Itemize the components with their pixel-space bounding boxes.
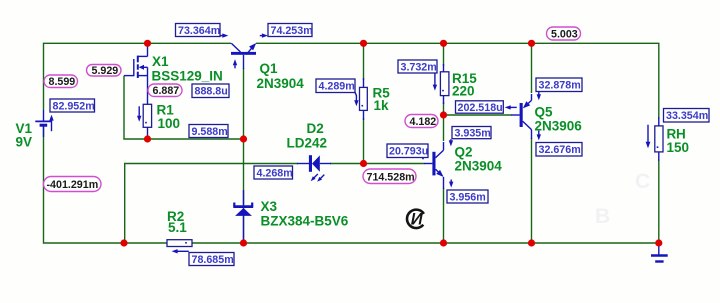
wire: node 4.182 down to Q2 collector [443, 115, 445, 141]
node junction dot (LED rail / bottom rail) [120, 239, 127, 246]
node junction dot (node 5.929 / Q1 base / zener) [240, 135, 247, 142]
svg-text:33.354m: 33.354m [666, 110, 708, 122]
svg-text:3.956m: 3.956m [450, 191, 486, 203]
current arrow for 32.878m (Q5 emitter) [537, 92, 541, 100]
svg-text:4.268m: 4.268m [257, 167, 293, 179]
svg-text:888.8u: 888.8u [195, 86, 228, 98]
svg-text:5.003: 5.003 [551, 28, 578, 40]
current label 82.952m [50, 99, 95, 112]
current label 73.364m [176, 24, 221, 37]
transistor Q1 [231, 41, 258, 69]
current label 3.732m [398, 60, 437, 73]
node junction dot (R15 / top rail) [440, 40, 447, 47]
svg-text:Q5: Q5 [535, 104, 554, 119]
current label 32.676m [536, 143, 582, 157]
svg-text:2N3906: 2N3906 [535, 118, 583, 133]
svg-text:И: И [411, 210, 424, 228]
resistor R5 [360, 78, 368, 120]
current label 33.354m [664, 109, 710, 123]
svg-text:LD242: LD242 [287, 136, 328, 151]
node junction dot (Q5 emitter / top rail) [528, 40, 535, 47]
svg-text:4.289m: 4.289m [319, 81, 355, 93]
svg-text:32.676m: 32.676m [539, 144, 581, 156]
wire: bottom rail [124, 242, 659, 244]
wire: Q2 emitter down to bottom rail [443, 188, 445, 243]
current arrow for 9.588m (R1 current) [137, 106, 141, 122]
zener diode X3 [233, 190, 253, 240]
wire: node 5.929 down through zener X3 to bottom rail [243, 139, 245, 243]
resistor RH [655, 117, 663, 161]
current arrow for 74.253m (out of Q1 emitter) [260, 33, 268, 37]
mosfet X1 BSS129_IN [124, 43, 148, 104]
svg-text:100: 100 [158, 116, 181, 131]
current arrow for 78.685m (R2 current) [172, 249, 189, 253]
voltage label 8.599 [44, 75, 78, 88]
current label 78.685m [189, 253, 234, 266]
svg-text:X1: X1 [152, 54, 169, 69]
current arrow for 73.364m (into Q1 collector) [220, 33, 228, 37]
svg-text:6.887: 6.887 [153, 85, 180, 97]
current label 4.268m [254, 166, 293, 179]
wire: R5 bottom to node 714m [363, 118, 365, 164]
battery V1 [35, 110, 51, 137]
wire: LED cathode side to R5 bottom node [330, 163, 364, 165]
voltage label 6.887 [148, 84, 182, 97]
ground [651, 243, 668, 262]
svg-text:2N3904: 2N3904 [257, 76, 305, 91]
resistor R1 [143, 104, 151, 139]
svg-text:150: 150 [667, 140, 690, 155]
svg-text:D2: D2 [307, 121, 324, 136]
wire: left rail below battery to bottom-left corner [44, 125, 125, 243]
svg-text:4.182: 4.182 [410, 116, 437, 128]
wire: Q1 base down to node 5.929 [243, 68, 245, 139]
wire: top rail left segment (V1+ to Q1 collector) [44, 43, 232, 110]
current arrow for 33.354m (RH current) [646, 125, 651, 149]
svg-text:78.685m: 78.685m [192, 254, 234, 266]
resistor R2 [167, 240, 192, 247]
current arrow for 3.935m (Q2 collector) [449, 139, 453, 146]
current arrow for 4.289m (R5 current) [354, 93, 358, 107]
wire: R5 branch from top rail [363, 43, 365, 80]
wire: Q2 base wire from node 714m [364, 163, 425, 165]
svg-text:Q2: Q2 [455, 145, 473, 160]
watermark circled letter [407, 210, 424, 229]
svg-text:C: C [635, 170, 650, 193]
current label 3.956m [447, 190, 488, 203]
wire: RH bottom to bottom rail / ground [658, 159, 660, 243]
svg-text:5.929: 5.929 [92, 65, 119, 77]
node junction dot (node 714m / R5 bottom / Q2 base) [360, 160, 367, 167]
svg-text:714.528m: 714.528m [367, 172, 415, 184]
svg-text:5.1: 5.1 [168, 220, 187, 235]
svg-text:20.793u: 20.793u [389, 146, 428, 158]
svg-text:B: B [595, 205, 610, 228]
current label 74.253m [268, 24, 313, 37]
svg-text:3.935m: 3.935m [455, 127, 491, 139]
svg-text:220: 220 [452, 84, 475, 99]
current arrow for 32.676m (Q5 collector) [537, 131, 541, 141]
svg-text:32.878m: 32.878m [539, 80, 581, 92]
node junction dot (R1 bottom / gate rail) [144, 135, 151, 142]
current label 888.8u [192, 84, 229, 98]
resistor R15 [440, 64, 449, 104]
svg-text:3.732m: 3.732m [401, 61, 437, 73]
wire: Q5 emitter up to top rail [531, 43, 533, 93]
svg-text:82.952m: 82.952m [53, 100, 95, 112]
node junction dot (Q2 emitter / bottom rail) [440, 239, 447, 246]
node junction dot (RH / ground / bottom rail) [655, 239, 662, 246]
node junction dot (R5 / top rail) [360, 40, 367, 47]
LED D2 [297, 155, 331, 183]
voltage label -401.291m [44, 177, 102, 192]
transistor Q5 [511, 94, 532, 139]
node junction dot (Q5 collector / bottom rail) [528, 239, 535, 246]
svg-text:1k: 1k [374, 98, 390, 113]
wire: Q5 base wire from node 4.182 [444, 114, 512, 116]
current label 202.518u [456, 101, 504, 114]
voltage label 5.003 [547, 27, 581, 40]
current label 20.793u [387, 144, 428, 158]
transistor Q2 [424, 142, 446, 189]
svg-text:BSS129_IN: BSS129_IN [152, 69, 223, 84]
wire: top rail right segment (Q1 emitter to top-right corner, down to RH) [256, 43, 659, 119]
wire: LED rail from left vertical to LED anode and on to node 714m [125, 164, 298, 244]
voltage label 4.182 [405, 115, 438, 128]
svg-text:Q1: Q1 [260, 61, 279, 76]
svg-text:73.364m: 73.364m [178, 25, 220, 37]
svg-text:X3: X3 [261, 199, 278, 214]
svg-text:-401.291m: -401.291m [47, 179, 99, 191]
current label 32.878m [536, 78, 582, 92]
svg-text:74.253m: 74.253m [271, 25, 313, 37]
current pointer for 20.793u (Q2 base) [421, 156, 426, 159]
svg-text:BZX384-B5V6: BZX384-B5V6 [261, 214, 349, 229]
current arrow for 82.952m (battery current) [49, 115, 53, 132]
current arrow for 888.8u (Q1 base current) [233, 59, 237, 68]
svg-text:202.518u: 202.518u [458, 102, 503, 114]
svg-text:8.599: 8.599 [49, 76, 76, 88]
svg-text:2N3904: 2N3904 [455, 159, 503, 174]
svg-text:9.588m: 9.588m [192, 126, 228, 138]
node junction dot (zener / bottom rail) [240, 239, 247, 246]
node junction dot (node 4.182 / R15 bottom / Q5 base) [440, 111, 447, 118]
current arrow for 202.518u (Q5 base current) [505, 105, 517, 109]
voltage label 714.528m [363, 169, 416, 184]
current label 4.289m [316, 79, 355, 93]
svg-text:9V: 9V [16, 135, 33, 150]
current arrow for 3.956m (Q2 emitter) [449, 180, 453, 188]
wire: R15 branch from top rail [443, 43, 445, 66]
wire: MOSFET gate rail down and across to node 5.929 [124, 76, 244, 139]
wire: Q5 collector down to bottom rail [531, 138, 533, 243]
current label 9.588m [189, 125, 228, 138]
current label 3.935m [452, 127, 491, 140]
voltage label 5.929 [87, 65, 122, 78]
wire: R15 bottom to node 4.182 [443, 102, 445, 115]
current arrow for 3.732m (R15 current) [433, 74, 437, 91]
node junction dot (drain / top rail) [144, 40, 151, 47]
